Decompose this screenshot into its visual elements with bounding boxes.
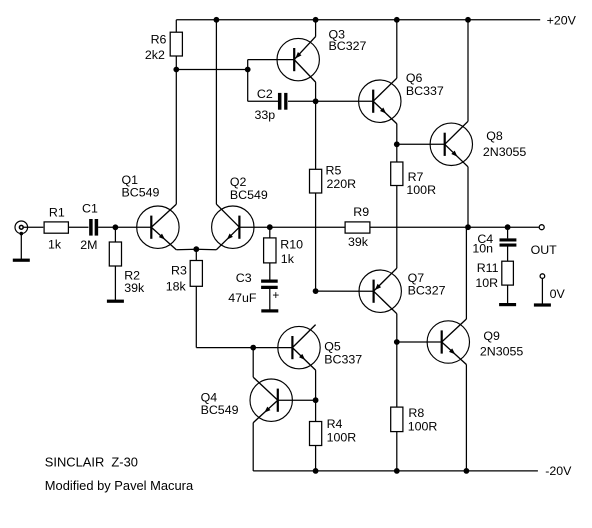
wire Q5 base from R3 (196, 347, 292, 349)
svg-text:Q9: Q9 (483, 329, 500, 343)
svg-text:R1: R1 (49, 206, 65, 220)
wire R10 to C3 (269, 263, 271, 280)
wire Q2 base to R9 (239, 226, 345, 228)
wire R1 to C1 (68, 226, 88, 228)
wire Q1 collector vertical (175, 70, 177, 205)
label C2 value (255, 87, 276, 122)
svg-text:BC337: BC337 (324, 352, 362, 366)
svg-text:R9: R9 (353, 205, 369, 219)
resistor R11 (502, 261, 514, 285)
resistor R2 (109, 242, 121, 266)
svg-text:33p: 33p (255, 108, 276, 122)
svg-text:BC337: BC337 (406, 84, 444, 98)
capacitor C3 (261, 281, 278, 287)
wire Q9 collector to main wire (465, 227, 467, 319)
label -20V (545, 464, 572, 478)
resistor R1 (44, 222, 68, 233)
wire C2 right plate to node (288, 100, 316, 102)
wire node to Q7 base (316, 290, 374, 292)
svg-text:39k: 39k (348, 235, 369, 249)
svg-text:OUT: OUT (531, 243, 558, 257)
svg-text:R5: R5 (326, 164, 342, 178)
node junction Q3 emitter to +20V (313, 17, 319, 23)
svg-text:10R: 10R (475, 276, 498, 290)
label R9 value (348, 205, 369, 249)
node junction Q5 base/Q4 collector (250, 345, 256, 351)
wire R9 to output node (370, 226, 468, 228)
capacitor C2 (280, 93, 286, 110)
svg-text:R8: R8 (408, 406, 424, 420)
wire Q5 emitter down (315, 370, 317, 400)
svg-text:100R: 100R (327, 430, 357, 444)
label Q1 (122, 173, 160, 199)
node junction R4 to rail (313, 468, 319, 474)
svg-text:39k: 39k (124, 281, 145, 295)
wire rail corner to R6 top (175, 20, 177, 32)
resistor R8 (391, 407, 403, 432)
resistor R4 (310, 422, 322, 446)
wire C1 to Q1 base (98, 226, 151, 228)
node junction Q9 emitter to rail (464, 468, 470, 474)
wire R5 bottom down across main wire (315, 193, 317, 291)
node junction R8 to rail (394, 468, 400, 474)
wire node to R7 top (396, 144, 398, 162)
svg-text:-20V: -20V (545, 464, 572, 478)
wire Q2 collector vertical (215, 20, 217, 204)
label R6 value (145, 33, 167, 62)
wire R3 bottom to Q5 base wire (195, 286, 197, 347)
node junction Q4 base/R4 (313, 397, 319, 403)
label C4 value (472, 232, 493, 255)
label R10 value (280, 238, 303, 266)
node junction Q6 collector to +20V (394, 17, 400, 23)
node junction C2 branch (245, 67, 251, 73)
wire input to R1 (23, 226, 43, 228)
resistor R3 (190, 261, 202, 287)
transistor Q3 (277, 37, 319, 83)
wire C2 node to R5 (315, 101, 317, 169)
wire Q7 collector down (396, 314, 398, 342)
svg-text:+: + (272, 288, 279, 302)
label R7 value (406, 170, 436, 197)
node junction Q6 emitter/R7/Q8 base (394, 141, 400, 147)
ground R2 (107, 266, 124, 303)
svg-text:Q2: Q2 (230, 175, 247, 189)
wire R3 top (195, 249, 197, 260)
node +20V label (547, 14, 577, 28)
label R4 value (327, 417, 357, 444)
svg-text:R3: R3 (171, 264, 187, 278)
wire R4 bottom to rail (315, 446, 317, 471)
transistor Q7 (359, 268, 401, 314)
svg-text:2N3055: 2N3055 (480, 345, 524, 359)
wire Q6 emitter to R7 node (396, 124, 398, 145)
svg-text:2k2: 2k2 (145, 48, 165, 62)
svg-text:BC327: BC327 (329, 39, 367, 53)
wire Q2 emitter to R3 node (196, 248, 216, 251)
label Q2 (230, 175, 268, 202)
ground 0V (534, 279, 551, 307)
label subtitle (45, 478, 194, 493)
wire Q8 emitter to main wire (467, 167, 469, 227)
label R5 value (326, 164, 357, 191)
wire Q1 emitter to R3 node (176, 248, 196, 251)
label R1 value (48, 206, 65, 252)
svg-text:BC549: BC549 (230, 188, 268, 202)
wire R4 top (315, 400, 317, 421)
label R2 value (124, 269, 145, 296)
node junction C1/R2/Q1 base (113, 224, 119, 230)
label Q5 (324, 340, 362, 367)
transistor Q4 (250, 377, 292, 423)
wire Q4 base wire (278, 399, 316, 401)
node junction Q1/Q2 emitters and R3 (193, 246, 199, 252)
resistor R7 (391, 162, 403, 186)
svg-text:+20V: +20V (547, 14, 577, 28)
node junction Q8 emitter/main (465, 224, 471, 230)
wire Q4 collector up to Q5 base node (252, 348, 254, 378)
resistor R9 (345, 222, 370, 233)
input connector J1 (15, 221, 28, 235)
node junction Q2 collector to +20V (214, 17, 220, 23)
wire Q6 collector to rail (396, 20, 398, 78)
wire R10 stub (269, 227, 271, 238)
transistor Q2 (212, 204, 254, 250)
svg-text:2N3055: 2N3055 (483, 145, 527, 159)
svg-text:10n: 10n (472, 242, 493, 256)
label Q9 (480, 329, 524, 359)
transistor Q5 (278, 325, 320, 371)
wire -20V rail (253, 470, 538, 472)
label C3 plus (272, 288, 279, 302)
wire R6 node to C2 node (176, 69, 247, 71)
label Q4 (201, 390, 239, 417)
transistor Q9 (427, 319, 469, 365)
svg-text:2M: 2M (80, 238, 97, 252)
node junction Q8 collector to +20V (465, 17, 471, 23)
resistor R10 (264, 238, 276, 263)
svg-text:47uF: 47uF (228, 291, 257, 305)
label Q7 (408, 271, 446, 298)
node junction R10 top (267, 224, 273, 230)
resistor R6 (170, 32, 182, 56)
svg-text:Q8: Q8 (486, 129, 503, 143)
svg-text:C3: C3 (236, 271, 252, 285)
svg-text:R6: R6 (151, 33, 167, 47)
wire Q4 emitter down to rail (252, 423, 254, 471)
svg-text:BC549: BC549 (122, 186, 160, 200)
wire +20V rail (176, 19, 540, 21)
svg-text:100R: 100R (406, 183, 436, 197)
terminal 0V (540, 274, 545, 279)
svg-text:BC327: BC327 (408, 284, 446, 298)
svg-text:C1: C1 (82, 202, 98, 216)
svg-text:Q4: Q4 (201, 390, 218, 404)
label C1 value (80, 202, 98, 253)
node junction R6 bottom (173, 67, 179, 73)
wire R8 top (396, 342, 398, 407)
wire R8 bottom to rail (396, 432, 398, 471)
label Q8 (483, 129, 527, 159)
label title (45, 454, 138, 469)
transistor Q6 (359, 78, 401, 124)
wire Q6 base from C2 node (316, 100, 374, 102)
wire jog up to Q3 base (248, 60, 295, 70)
wire R7 bottom across main to Q7 emitter (396, 186, 398, 269)
wire Q8 base wire (397, 143, 445, 145)
label Q3 (329, 28, 367, 54)
svg-text:18k: 18k (166, 280, 187, 294)
wire C4 stub (507, 227, 509, 238)
capacitor C1 (91, 219, 97, 236)
capacitor C4 (500, 240, 517, 245)
label OUT (531, 243, 558, 257)
label Q6 (406, 71, 444, 98)
wire Q8 collector to rail (467, 20, 469, 122)
label R3 value (166, 264, 187, 294)
wire C4 to R11 (507, 245, 509, 261)
wire Q3 collector to C2 node (315, 82, 317, 101)
wire output node to C4 node (468, 226, 508, 228)
svg-text:R7: R7 (408, 170, 424, 184)
svg-text:C2: C2 (257, 87, 273, 101)
node junction C4 branch (505, 224, 511, 230)
terminal OUT (539, 225, 544, 230)
svg-text:220R: 220R (327, 177, 357, 191)
wire Q3 emitter to rail (315, 20, 317, 37)
svg-text:0V: 0V (550, 287, 566, 301)
svg-text:1k: 1k (281, 252, 295, 266)
label R11 value (475, 261, 498, 290)
ground R11 (499, 285, 516, 306)
wire R2 stub (114, 227, 116, 242)
svg-text:BC549: BC549 (201, 403, 239, 417)
label 0V (550, 287, 566, 301)
svg-text:SINCLAIR Z-30: SINCLAIR Z-30 (45, 454, 138, 469)
wire Q9 emitter to rail (465, 365, 467, 471)
node junction C2/Q3 collector/R5/Q6 base (313, 98, 319, 104)
wire C4 node to output terminal (508, 226, 539, 228)
svg-text:R4: R4 (327, 417, 343, 431)
node junction R5/Q5 collector/Q7 base (313, 288, 319, 294)
node junction Q7 collector/R8/Q9 base (394, 339, 400, 345)
ground input (13, 234, 30, 262)
ground C3 (261, 287, 278, 312)
wire Q9 base wire (397, 341, 442, 343)
label R8 value (408, 406, 438, 434)
label C3 value (228, 271, 257, 305)
wire jog down to C2 (248, 70, 279, 102)
wire R6 bottom to node (175, 56, 177, 70)
svg-text:100R: 100R (408, 420, 438, 434)
svg-text:R10: R10 (280, 238, 303, 252)
resistor R5 (310, 169, 322, 193)
svg-text:R11: R11 (477, 261, 499, 275)
svg-text:1k: 1k (48, 238, 62, 252)
svg-text:Modified by Pavel Macura: Modified by Pavel Macura (45, 478, 194, 493)
transistor Q1 (137, 204, 179, 250)
transistor Q8 (430, 121, 472, 167)
